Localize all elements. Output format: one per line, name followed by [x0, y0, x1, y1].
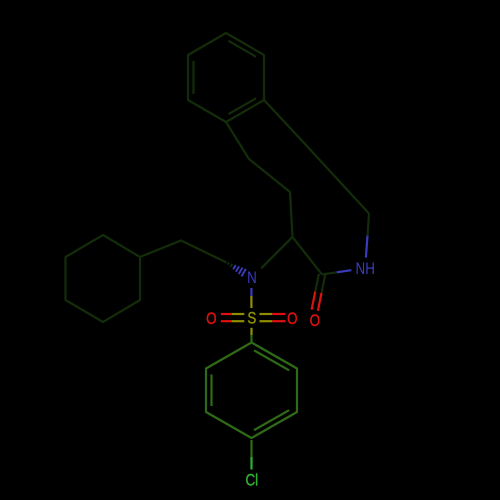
svg-text:NH: NH: [356, 259, 375, 278]
sulfonyl double bond S=O right: [260, 314, 286, 321]
aromatic inner line B2-B3: [210, 375, 212, 407]
benzene ring top (aromatic hexagon): [188, 33, 264, 122]
bond C3-C2: [293, 237, 323, 275]
cyclohexane ring: [66, 235, 141, 322]
carbonyl double bond C2=O: [312, 274, 326, 311]
svg-text:O: O: [287, 309, 298, 328]
right chain bonds Cx-Cy-Cz-T5: [264, 100, 369, 214]
bond NH-Cx: [366, 236, 368, 258]
sulfonyl double bond S=O left: [221, 314, 244, 321]
bond N-S: [250, 288, 252, 296]
svg-text:O: O: [310, 311, 321, 330]
bond S-B1: [250, 328, 252, 335]
chlorophenyl ring: [206, 343, 297, 439]
bond C3-N sulfonamide: [261, 237, 292, 268]
svg-text:O: O: [206, 309, 217, 328]
bond B4-Cl: [250, 440, 252, 457]
hashed wedge bond Cst-N: [228, 262, 246, 276]
aromatic inner line T6-T1: [228, 41, 256, 57]
aromatic inner line T4-T5: [228, 98, 256, 114]
aromatic inner line B4-B5: [254, 410, 289, 430]
linker chain bonds T4-K1-C4-C3: [226, 122, 293, 237]
aromatic inner line T2-T3: [192, 61, 194, 94]
svg-text:S: S: [247, 309, 256, 328]
svg-text:N: N: [247, 269, 257, 288]
bonds R1-Cb-Cst (cyclohexylmethyl chain): [140, 241, 227, 263]
aromatic inner line B6-B1: [254, 350, 289, 370]
amide bond C2-NH: [322, 272, 337, 274]
svg-text:Cl: Cl: [245, 471, 258, 490]
